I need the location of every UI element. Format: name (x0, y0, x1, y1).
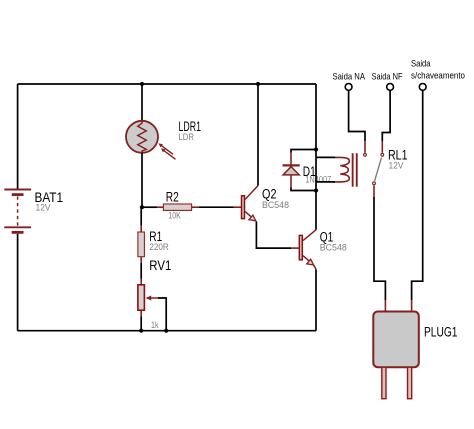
wire Q2 collector to top rail (257, 84, 259, 186)
battery BAT1 (4, 190, 63, 233)
svg-text:1N4007: 1N4007 (305, 175, 331, 186)
node D1 bottom junction (314, 188, 318, 192)
node RV1 bottom / rail (139, 329, 143, 333)
wire Saida NF to relay NF contact (382, 91, 390, 142)
terminal Saida NA (333, 71, 366, 90)
terminal Saida NF (372, 71, 403, 90)
node LDR/R2/R1 junction (140, 205, 144, 209)
wire node to R2 (142, 206, 157, 208)
wire Saida s/chaveamento to plug right pin (412, 91, 423, 301)
photoresistor LDR1 (126, 119, 201, 159)
node D1 top junction (314, 147, 318, 151)
wire coil leads black part (316, 157, 335, 182)
wire Q2 emitter to Q1 base (256, 222, 291, 249)
resistor R1 220R (138, 207, 169, 284)
svg-text:R2: R2 (166, 189, 179, 204)
svg-text:12V: 12V (389, 161, 405, 172)
svg-text:s/chaveamento: s/chaveamento (411, 70, 465, 80)
wire D1 bottom branch (291, 188, 316, 191)
resistor R2 10K (157, 189, 199, 221)
svg-text:220R: 220R (149, 242, 169, 253)
potentiometer RV1 1k (138, 258, 171, 331)
wire left vertical to battery top (17, 84, 19, 189)
wire Q1 emitter to rail (315, 269, 317, 330)
relay common contact (373, 182, 376, 185)
wire LDR branch top (141, 84, 143, 121)
wire top rail (18, 83, 316, 85)
node top rail / LDR (140, 82, 144, 86)
svg-text:LDR: LDR (179, 132, 195, 143)
wire RV1 wiper to rail (158, 298, 166, 331)
relay contact NA (364, 153, 367, 156)
diode D1 1N4007 (283, 153, 332, 188)
svg-text:PLUG1: PLUG1 (424, 324, 458, 339)
wire Q1 collector riser (315, 84, 317, 230)
svg-text:10K: 10K (168, 210, 181, 221)
terminal Saida s/chaveamento (411, 59, 465, 91)
svg-text:BC548: BC548 (262, 200, 289, 211)
wire R2 to Q2 base (199, 206, 234, 208)
relay switch arm (375, 158, 382, 181)
node top rail / Q2 collector (256, 82, 260, 86)
wire D1 top branch (291, 150, 316, 153)
relay RL1 coil (333, 147, 408, 186)
wire relay common to plug left pin (373, 185, 375, 197)
relay contact NF (381, 153, 384, 156)
wire LDR bottom to node (141, 153, 143, 207)
transistor Q1 BC548 (291, 229, 347, 269)
wire battery bottom to rail (17, 234, 19, 331)
svg-text:12V: 12V (36, 203, 52, 214)
wire bottom rail (18, 330, 316, 332)
connector PLUG1 (373, 312, 457, 399)
svg-text:Saida NA: Saida NA (333, 71, 366, 81)
svg-text:BC548: BC548 (320, 242, 347, 253)
transistor Q2 BC548 (234, 186, 290, 221)
svg-text:Saida: Saida (411, 59, 431, 69)
svg-text:1k: 1k (151, 320, 159, 331)
svg-text:RV1: RV1 (149, 258, 171, 273)
svg-text:Saida NF: Saida NF (372, 71, 403, 81)
node wiper / rail (164, 329, 168, 333)
wire Saida NA to relay NA contact (349, 91, 365, 142)
